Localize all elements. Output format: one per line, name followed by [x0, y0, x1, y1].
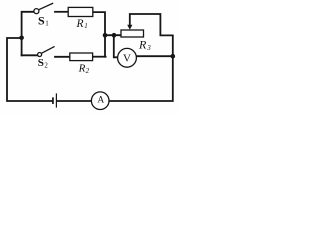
resistor R2	[70, 53, 93, 61]
wire battery to ammeter	[57, 100, 91, 102]
node J1 left junction	[19, 36, 24, 41]
wire R1 right, down to R2 corner	[93, 12, 105, 57]
battery cell	[52, 97, 54, 104]
svg-text:2: 2	[86, 67, 90, 75]
svg-text:S: S	[38, 14, 45, 28]
svg-text:V: V	[123, 52, 131, 64]
switch S2	[38, 46, 55, 56]
node dot2	[112, 33, 117, 38]
switch S1	[34, 3, 53, 14]
wire S2 fixed contact to R2	[55, 56, 70, 58]
voltmeter V	[118, 48, 137, 67]
svg-text:A: A	[97, 95, 104, 105]
ammeter A	[91, 92, 109, 110]
wire voltmeter right to rail	[136, 55, 173, 57]
svg-text:1: 1	[45, 19, 49, 27]
wire ammeter to right rail, up to corner, wiper top wire	[109, 14, 173, 101]
svg-text:S: S	[38, 57, 44, 69]
rheostat wiper arrowhead	[127, 25, 132, 30]
svg-text:1: 1	[84, 22, 88, 30]
svg-text:R: R	[138, 38, 147, 52]
svg-text:3: 3	[146, 44, 151, 52]
node dot3 on right rail	[171, 54, 176, 59]
svg-text:R: R	[76, 18, 84, 30]
wire left stub, left rail, bottom-left wire	[7, 38, 52, 101]
rheostat R3	[121, 30, 144, 37]
node dot1	[103, 33, 108, 38]
wire bus dot1 to R3 box	[105, 34, 121, 36]
wire R2 right to ascent	[93, 56, 106, 58]
wire voltmeter left drop from dot2	[114, 35, 118, 57]
svg-text:R: R	[78, 63, 86, 75]
wire S1 fixed contact to R1	[55, 11, 68, 13]
wire trunk vertical with top corner to S1	[22, 12, 34, 56]
wire R2 branch left horizontal	[22, 54, 38, 56]
resistor R1	[68, 7, 93, 16]
svg-text:2: 2	[44, 61, 48, 69]
